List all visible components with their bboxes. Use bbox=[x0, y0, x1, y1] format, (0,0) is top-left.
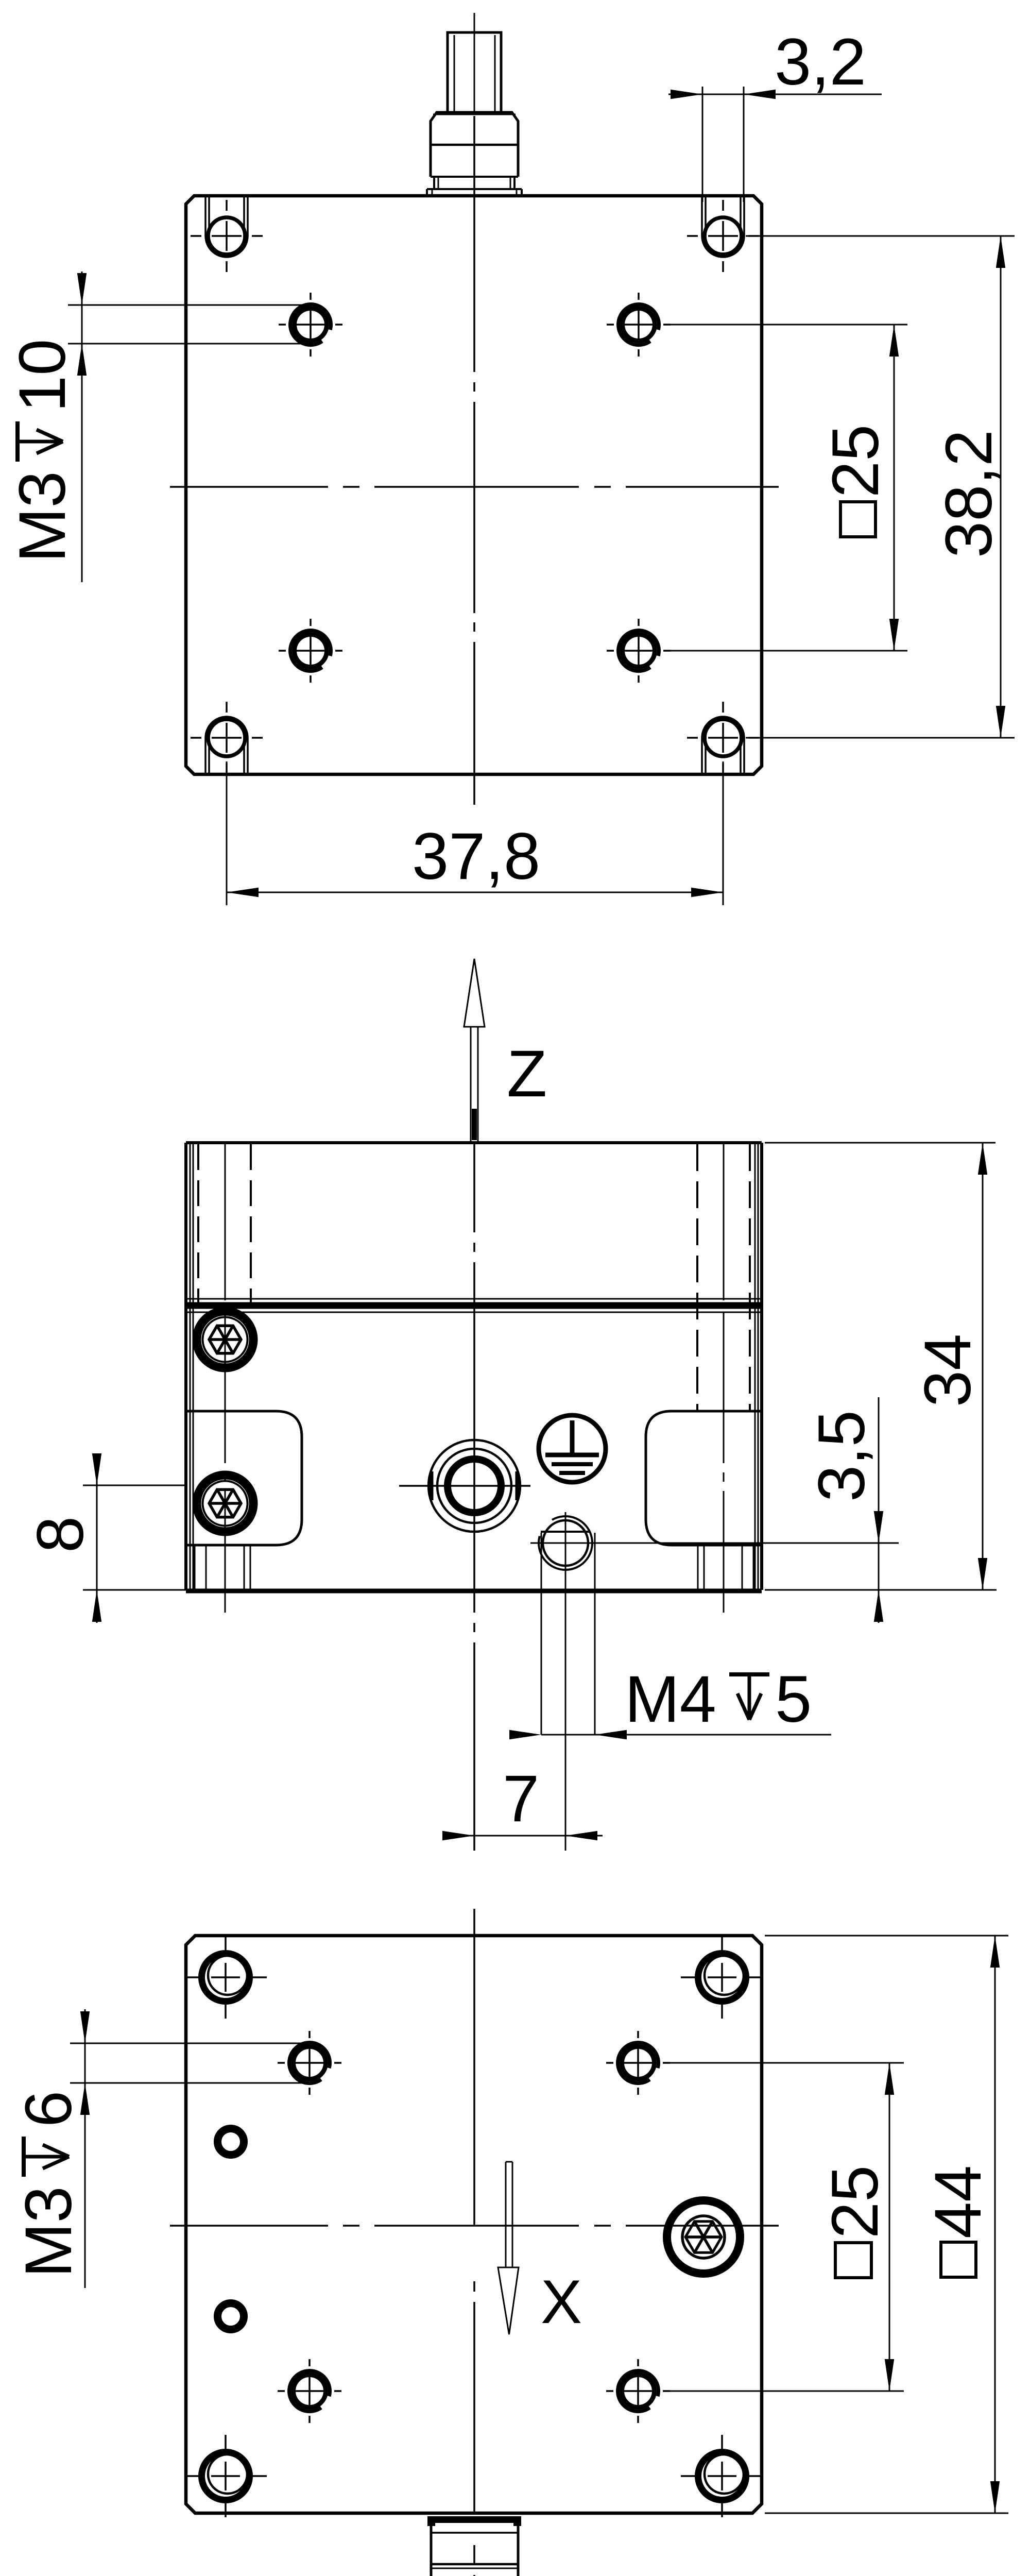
callout M3 depth 6: dimension line bbox=[84, 2009, 86, 2288]
callout M3 depth 6: rotated text bbox=[12, 2091, 85, 2278]
dimension 37,8: dimension line bbox=[227, 892, 723, 893]
bottom view: M3 hole upper-right bbox=[622, 2047, 655, 2079]
dimension 3,5: arrows bbox=[874, 1511, 883, 1543]
svg-text:25: 25 bbox=[819, 425, 892, 498]
bottom view: corner screw top-right bbox=[698, 1954, 746, 2002]
top view: horizontal centerline bbox=[170, 486, 328, 488]
dimension 8: dimension line bbox=[96, 1453, 98, 1623]
callout M3 depth 6: tangent leader lines bbox=[70, 2043, 313, 2044]
dimension square 44: square symbol bbox=[941, 2242, 976, 2277]
dimension 38,2: rotated text bbox=[932, 430, 1006, 558]
top view: M3 hole lower-right bbox=[623, 635, 655, 667]
dimension 37,8: arrows bbox=[227, 888, 259, 897]
bottom view: corner screw bottom-left bbox=[202, 2452, 250, 2500]
top view: corner hole top-right bbox=[702, 196, 744, 257]
dimension 34: dimension line bbox=[982, 1143, 984, 1590]
dimension square 25 (top view): arrows bbox=[889, 325, 899, 357]
dimension square 25 (bottom view): arrows bbox=[885, 2063, 894, 2095]
dimension 34: arrows bbox=[978, 1143, 987, 1175]
dimension 8: arrows bbox=[92, 1453, 101, 1485]
callout M3 depth 10: rotated text bbox=[6, 339, 79, 563]
front view: hidden counterbore lines right bbox=[696, 1144, 698, 1411]
top view: M3 hole upper-right bbox=[623, 309, 655, 341]
callout M4 depth 5: leader line bbox=[541, 1734, 831, 1736]
front view: Z axis arrow shaft bbox=[470, 1027, 472, 1141]
front view: protective earth symbol bbox=[539, 1415, 606, 1482]
svg-text:7: 7 bbox=[503, 1762, 539, 1836]
callout M3 depth 10: tangent leader lines bbox=[68, 304, 314, 306]
svg-text:3,5: 3,5 bbox=[805, 1410, 879, 1502]
bottom view: corner screw bottom-right bbox=[698, 2452, 746, 2500]
bottom view: M3 hole lower-right bbox=[622, 2375, 655, 2408]
dimension square 25 (top view): dimension line bbox=[894, 325, 895, 651]
front view: inner edge lines left bbox=[190, 1143, 191, 1590]
svg-text:44: 44 bbox=[921, 2165, 995, 2239]
callout M4 depth 5: tangent extension lines bbox=[541, 1533, 542, 1735]
svg-text:25: 25 bbox=[818, 2165, 892, 2239]
top view: connector flange bbox=[427, 188, 522, 190]
top view: connector plug (top) bbox=[448, 32, 501, 112]
bottom view: side hole lower bbox=[218, 2303, 244, 2330]
svg-text:34: 34 bbox=[911, 1334, 985, 1407]
dimension 8: extension lines bbox=[83, 1485, 186, 1486]
front view: screw axis line left bbox=[225, 1143, 226, 1300]
dimension square 25 (top view): rotated text bbox=[819, 425, 892, 498]
dimension square 25 (top view): square symbol bbox=[840, 502, 875, 537]
front view: hidden counterbore lines left bbox=[197, 1144, 199, 1306]
front view: central connector boss bbox=[428, 1440, 520, 1532]
svg-text:8: 8 bbox=[24, 1516, 97, 1553]
dimension square 25 (bottom view): square symbol bbox=[835, 2243, 871, 2278]
callout M4 depth 5: arrows bbox=[509, 1730, 541, 1739]
dimension square 25 (top view): extension lines bbox=[663, 324, 907, 326]
front view: foot lines under pocket right bbox=[697, 1545, 699, 1590]
callout M3 depth 6: arrows bbox=[80, 2011, 90, 2043]
front view: inner edge lines right bbox=[754, 1143, 756, 1590]
top view: corner hole top-left (slot + 3.2 hole) bbox=[205, 196, 248, 257]
dimension 7: arrows bbox=[442, 1831, 474, 1840]
dimension 7: dimension line bbox=[444, 1835, 603, 1837]
dimension 38,2: arrows bbox=[996, 236, 1005, 268]
svg-text:38,2: 38,2 bbox=[932, 430, 1006, 558]
front view: body outline bbox=[186, 1141, 762, 1144]
dimension square 25 (bottom view): dimension line bbox=[889, 2063, 890, 2391]
dimension 38,2: dimension line bbox=[1000, 236, 1002, 738]
bottom view: connector flange bar bbox=[427, 2516, 521, 2523]
dimension 8: rotated text bbox=[24, 1516, 97, 1553]
top view: M3 hole upper-left bbox=[295, 309, 327, 341]
front view: screw axis line right bbox=[723, 1143, 725, 1300]
svg-text:M3: M3 bbox=[6, 471, 79, 563]
dimension 3,5: dimension line bbox=[878, 1397, 880, 1623]
bottom view: M3 hole upper-left bbox=[294, 2047, 326, 2079]
front view: M4 threaded hole bbox=[543, 1520, 588, 1566]
top view: corner hole bottom-left bbox=[205, 717, 248, 774]
front view: pocket right bbox=[646, 1411, 762, 1545]
bottom view: side hole upper bbox=[218, 2129, 244, 2155]
dimension 34: extension lines bbox=[765, 1142, 995, 1144]
front view: Z axis arrowhead bbox=[464, 959, 485, 1027]
dimension 3,2: extension lines bbox=[702, 87, 703, 202]
bottom view: corner screw top-left bbox=[202, 1954, 250, 2002]
top view: connector neck bbox=[433, 177, 435, 189]
front view: foot lines under pocket left bbox=[194, 1545, 196, 1590]
dimension 34: rotated text bbox=[911, 1334, 985, 1407]
front view: centerline segment inside shaft bbox=[472, 1109, 477, 1140]
bottom view: vertical centerline bbox=[473, 1909, 475, 2225]
dimension 3,2: dimension line bbox=[668, 94, 882, 95]
svg-text:3,2: 3,2 bbox=[775, 25, 866, 99]
dimension 37,8: extension lines bbox=[226, 761, 228, 905]
svg-text:5: 5 bbox=[775, 1663, 812, 1736]
bottom view: M3 hole lower-left bbox=[294, 2375, 326, 2408]
front view: main vertical centerline bbox=[473, 1143, 475, 1232]
top view: connector body bbox=[431, 112, 518, 177]
front view: clamp screw upper (torx) bbox=[197, 1311, 253, 1368]
top view: corner hole bottom-right bbox=[702, 717, 744, 774]
bottom view: connector body bbox=[431, 2523, 518, 2576]
svg-text:10: 10 bbox=[6, 339, 79, 412]
dimension square 25 (bottom view): extension lines bbox=[663, 2062, 904, 2064]
dimension 3,5: rotated text bbox=[805, 1410, 879, 1502]
svg-text:6: 6 bbox=[12, 2091, 85, 2127]
dimension square 44: arrows bbox=[990, 1936, 1000, 1968]
dimension square 44: extension lines bbox=[765, 1935, 1008, 1937]
front view: split line between table and base bbox=[186, 1298, 762, 1300]
bottom view: locking screw (torx) bbox=[667, 2200, 740, 2274]
callout M3 depth 10: dimension line bbox=[81, 272, 83, 582]
dimension square 44: dimension line bbox=[994, 1936, 996, 2513]
front view: clamp screw lower (torx) bbox=[197, 1475, 253, 1532]
front view: pocket left bbox=[186, 1411, 302, 1545]
bottom view: horizontal centerline bbox=[170, 2225, 328, 2227]
svg-text:M4: M4 bbox=[625, 1663, 716, 1736]
dimension 38,2: extension lines bbox=[746, 235, 1015, 237]
bottom view: X axis arrowhead bbox=[498, 2267, 519, 2334]
top view: plate outline bbox=[186, 196, 762, 774]
svg-text:37,8: 37,8 bbox=[412, 820, 540, 893]
dimension square 44: rotated text bbox=[921, 2165, 995, 2239]
top view: vertical centerline bbox=[474, 13, 475, 112]
svg-text:X: X bbox=[541, 2267, 582, 2336]
svg-text:Z: Z bbox=[507, 1037, 547, 1111]
top view: M3 hole lower-left bbox=[295, 635, 327, 667]
dimension square 25 (bottom view): rotated text bbox=[818, 2165, 892, 2239]
bottom view: X axis arrow shaft bbox=[505, 2162, 507, 2267]
callout M3 depth 10: arrows bbox=[77, 273, 87, 305]
svg-text:M3: M3 bbox=[12, 2186, 85, 2278]
dimension 3,2: arrows bbox=[671, 90, 702, 99]
dimension 3,5: extension line from hole center bbox=[530, 1543, 899, 1544]
bottom view: plate outline bbox=[186, 1936, 762, 2513]
dimension 7: extension line from M4 hole center bbox=[565, 1512, 566, 1851]
